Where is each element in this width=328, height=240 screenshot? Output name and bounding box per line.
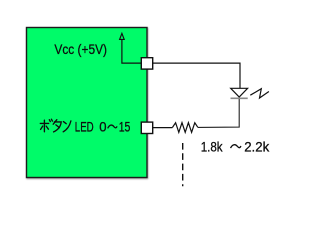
LED cathode bar <box>231 97 248 99</box>
resistor 1.8k-2.2k zigzag <box>172 123 198 133</box>
net label "botan-LED 0-15" (katakana drawn as paths) <box>40 119 71 132</box>
svg-text:Vcc (+5V): Vcc (+5V) <box>54 41 107 57</box>
svg-text:1.8k: 1.8k <box>201 139 223 154</box>
light emission squiggle <box>250 89 269 98</box>
pin button-LED (bottom square) <box>141 122 152 133</box>
wire Vcc arrow to top pin <box>122 40 141 63</box>
wave dash in 0-15 <box>108 125 117 128</box>
dashed continuation line <box>182 143 184 186</box>
pin Vcc (top square) <box>141 58 152 69</box>
LED (triangle) <box>231 88 248 97</box>
katakana BO <box>40 122 48 124</box>
svg-text:15: 15 <box>119 119 131 135</box>
Vcc power arrow <box>120 33 125 39</box>
wire top pin to LED anode <box>153 63 240 88</box>
svg-text:LED: LED <box>75 119 94 135</box>
wave dash in value label <box>231 145 241 148</box>
wire LED cathode down to corner <box>198 99 239 127</box>
wire bottom pin to resistor <box>153 127 173 129</box>
katakana N <box>63 122 66 124</box>
svg-text:0: 0 <box>99 119 106 135</box>
controller block (green box) <box>27 28 148 178</box>
svg-text:2.2k: 2.2k <box>244 139 269 154</box>
katakana TA <box>53 120 57 125</box>
